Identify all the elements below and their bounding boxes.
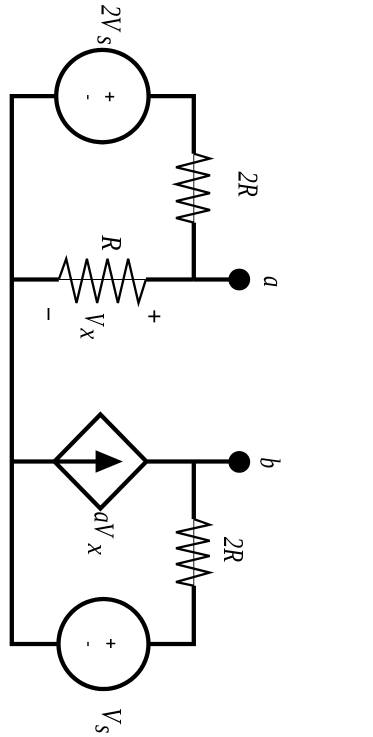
wire: outer bottom rail with left and right verticals xyxy=(12,96,59,644)
resistor 2R (bottom) axis xyxy=(193,519,195,586)
svg-text:R: R xyxy=(95,234,126,250)
wire: resistor R to bottom rail xyxy=(12,277,59,281)
terminal a dot xyxy=(228,269,250,291)
minus of 2Vs xyxy=(87,95,89,99)
resistor 2R (top) axis xyxy=(193,154,195,223)
svg-text:x: x xyxy=(81,543,112,556)
resistor R zigzag xyxy=(59,259,146,303)
svg-text:2R: 2R xyxy=(217,537,248,562)
wire: junction to 2R (bottom) xyxy=(192,462,196,520)
wire: 2R to node-a junction xyxy=(192,223,196,280)
plus of Vx xyxy=(148,310,160,322)
wire: 2R to top-right corner down to Vs xyxy=(149,586,194,644)
wire: junction up to terminal a xyxy=(194,277,233,281)
svg-text:2R: 2R xyxy=(232,172,263,197)
svg-text:x: x xyxy=(74,328,105,340)
dependent source aVx diamond xyxy=(54,415,146,509)
plus of 2Vs xyxy=(105,92,114,101)
svg-text:aV: aV xyxy=(87,512,118,539)
wire: diamond to terminal b xyxy=(146,459,233,463)
svg-text:2V: 2V xyxy=(95,5,126,33)
svg-text:s: s xyxy=(91,36,122,45)
resistor 2R (bottom) zigzag xyxy=(176,519,210,586)
svg-text:V: V xyxy=(95,708,126,725)
wire: junction down to resistor R xyxy=(146,277,194,281)
arrow shaft xyxy=(57,459,107,463)
plus of Vs xyxy=(106,639,115,648)
svg-text:b: b xyxy=(254,457,285,468)
voltage source 2Vs xyxy=(56,50,148,142)
svg-text:a: a xyxy=(257,276,288,287)
minus of Vs xyxy=(87,642,89,646)
wire: bottom rail up to dependent source xyxy=(12,459,55,463)
wire: top-left corner from 2Vs circle to 2R resistor xyxy=(149,96,194,154)
svg-text:s: s xyxy=(89,725,120,734)
svg-text:V: V xyxy=(78,313,109,327)
arrow head xyxy=(96,450,123,473)
voltage source Vs xyxy=(59,599,149,689)
terminal b dot xyxy=(228,451,250,473)
minus of Vx xyxy=(48,308,50,320)
resistor 2R (top) zigzag xyxy=(176,154,210,223)
resistor R axis xyxy=(59,279,146,281)
